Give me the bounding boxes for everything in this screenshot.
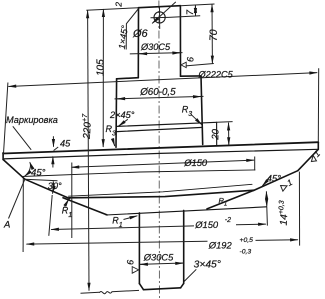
rim left chamfer 45 xyxy=(3,160,25,180)
ext hole center right xyxy=(169,16,201,18)
dim line d150-2 xyxy=(51,226,194,230)
leader 1x45 xyxy=(126,9,138,50)
leader marking xyxy=(13,126,31,150)
dim 45 lower arrow xyxy=(52,156,54,167)
boss left edge xyxy=(138,213,140,284)
boss bottom edge xyxy=(144,288,181,290)
roughness v1 on right chamfer xyxy=(307,148,323,164)
disc top t1 xyxy=(117,122,217,126)
svg-text:220+7: 220+7 xyxy=(81,113,94,140)
hub step right xyxy=(181,75,202,77)
svg-text:Ø6: Ø6 xyxy=(132,28,149,40)
hub left edge xyxy=(137,8,139,78)
dim line d192 xyxy=(26,241,207,244)
svg-text:A: A xyxy=(3,220,10,231)
svg-text:Ø30C5: Ø30C5 xyxy=(140,42,171,52)
hub column right edge xyxy=(201,76,203,144)
dim 20 line xyxy=(228,123,230,146)
arrow left d60 xyxy=(117,98,124,100)
svg-text:6: 6 xyxy=(126,260,136,265)
dim 105 line xyxy=(102,9,104,147)
roughness v1 on right slope xyxy=(279,177,295,192)
hub top edge xyxy=(139,6,181,8)
ext d222 right xyxy=(317,68,319,142)
leader R3 right xyxy=(191,114,202,125)
dim line d222 xyxy=(8,73,317,87)
angle 45 right arc xyxy=(262,176,270,186)
svg-text:Ø60-0,5: Ø60-0,5 xyxy=(139,87,176,98)
leader R1 first xyxy=(65,199,69,206)
rim right edge xyxy=(317,142,319,149)
top extension left xyxy=(86,8,138,11)
svg-text:45°: 45° xyxy=(267,173,281,184)
svg-text:7: 7 xyxy=(185,9,196,15)
svg-text:Ø222C5: Ø222C5 xyxy=(198,70,234,80)
svg-text:R3: R3 xyxy=(182,105,193,119)
arrow left d30b xyxy=(140,263,146,265)
boss bottom chamfer left xyxy=(139,284,143,290)
roughness v6 on boss side xyxy=(132,267,138,274)
roughness v6 on hub side xyxy=(181,62,186,67)
ext 14 to d150-2 line xyxy=(266,207,269,226)
ext d150-2 left xyxy=(49,195,52,236)
svg-text:1×45°: 1×45° xyxy=(117,24,130,49)
svg-text:45°: 45° xyxy=(31,168,46,179)
dim 7 line xyxy=(194,5,196,16)
boss right edge xyxy=(183,210,185,283)
svg-text:2: 2 xyxy=(114,2,124,8)
angle 30 ref line xyxy=(25,179,58,181)
centerline (vertical axis) xyxy=(158,1,161,299)
svg-text:3×45°: 3×45° xyxy=(194,260,221,271)
rim left edge xyxy=(2,153,4,160)
dim line d60 xyxy=(115,96,204,99)
frustum bottom F xyxy=(106,207,267,215)
svg-text:Маркировка: Маркировка xyxy=(6,115,58,125)
hole crosshair horizontal xyxy=(151,16,169,18)
frustum right side xyxy=(207,190,254,209)
dim 45 upper arrow xyxy=(52,136,54,147)
arrow right d60 xyxy=(194,96,201,98)
arrow right d30b xyxy=(177,262,184,264)
svg-text:+0,5: +0,5 xyxy=(240,237,254,244)
dim line d150 upper xyxy=(71,160,254,167)
svg-text:6: 6 xyxy=(186,57,196,62)
break squiggle xyxy=(100,292,112,294)
dim 220+7 line xyxy=(88,10,89,290)
svg-text:R1: R1 xyxy=(219,196,228,208)
svg-text:Ø150: Ø150 xyxy=(194,219,219,230)
machined bottom C xyxy=(69,184,253,196)
svg-text:Ø30C5: Ø30C5 xyxy=(143,253,174,263)
dim 70 line xyxy=(211,4,213,63)
svg-text:2×45°: 2×45° xyxy=(109,110,135,120)
angle 45 left arc xyxy=(25,162,31,176)
disc top t2 xyxy=(117,127,203,131)
disc bottom D xyxy=(69,190,254,198)
dim 45 connector xyxy=(54,147,59,151)
leader 2x45 xyxy=(118,119,127,126)
arrow left d30 xyxy=(139,53,146,55)
svg-text:R1: R1 xyxy=(62,206,73,220)
ext d150 left xyxy=(71,163,73,239)
rim right chamfer 45 xyxy=(298,149,319,170)
dim line d30C5 top xyxy=(130,53,183,54)
frustum left side xyxy=(63,198,107,215)
shelf line rough6 hub xyxy=(186,64,214,66)
left 30deg slope xyxy=(25,179,70,198)
ext d192 left xyxy=(22,178,24,252)
svg-text:Ø150: Ø150 xyxy=(183,157,208,168)
right 30deg slope xyxy=(254,171,298,191)
disc top step drop right xyxy=(216,122,218,146)
hole circle xyxy=(154,12,165,23)
boss bottom chamfer right xyxy=(181,283,184,287)
angle 30 arc xyxy=(52,181,55,193)
svg-text:-2: -2 xyxy=(225,217,231,224)
svg-text:105: 105 xyxy=(96,59,107,76)
bottom extension line xyxy=(81,290,140,293)
leader A xyxy=(9,180,25,219)
dim line d30C5 bottom xyxy=(140,263,184,264)
svg-text:70: 70 xyxy=(208,29,220,41)
svg-text:45: 45 xyxy=(60,139,71,149)
svg-text:30°: 30° xyxy=(48,181,62,191)
ext d192 right xyxy=(298,172,300,246)
svg-text:-0,3: -0,3 xyxy=(240,249,252,256)
arrow right d30 xyxy=(173,52,180,54)
leader d6 hole xyxy=(152,2,176,24)
machined line E xyxy=(22,170,255,177)
leader R1 second xyxy=(124,216,138,220)
hub step left xyxy=(117,78,139,79)
hole centerline vertical xyxy=(159,7,161,30)
rim top line A xyxy=(3,142,318,153)
leader R3 left xyxy=(113,139,115,147)
svg-text:20: 20 xyxy=(210,128,221,141)
svg-text:14+0,3: 14+0,3 xyxy=(277,200,290,226)
ext d222 left xyxy=(3,83,8,159)
svg-text:R1: R1 xyxy=(112,216,123,230)
ext d150 right xyxy=(254,157,256,171)
hub column left edge xyxy=(115,79,118,147)
dim 14+0.3 line xyxy=(265,191,267,206)
hub right edge xyxy=(179,6,181,77)
ext 20 xyxy=(217,121,233,124)
top extension right xyxy=(180,4,214,6)
svg-text:R3: R3 xyxy=(106,124,117,138)
svg-text:Ø192: Ø192 xyxy=(208,240,233,251)
rim line B xyxy=(3,149,318,159)
leader 3x45 xyxy=(184,269,196,281)
